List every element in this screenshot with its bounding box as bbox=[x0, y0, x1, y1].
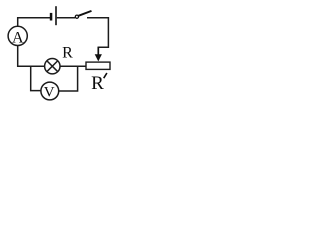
rheostat wiper arrowhead bbox=[95, 54, 102, 61]
svg-text:A: A bbox=[12, 29, 24, 46]
rheostat wiper stem bbox=[97, 47, 99, 55]
wire battery to switch bbox=[57, 17, 75, 19]
rheostat R' box bbox=[86, 62, 110, 69]
wire left vertical below ammeter, corner to lamp bbox=[18, 46, 45, 67]
wire top-left horizontal and left vertical down to ammeter bbox=[18, 18, 51, 27]
wire switch contact to top-right corner, down, and wiper horizontal bbox=[87, 18, 108, 48]
wire voltmeter tap: drop from lamp wire bbox=[31, 66, 41, 90]
lamp R: circle bbox=[45, 58, 60, 73]
wire lamp to rheostat left terminal bbox=[60, 65, 86, 67]
svg-text:R: R bbox=[91, 73, 104, 94]
ammeter U: circle bbox=[8, 26, 27, 45]
lamp cross stroke 2 bbox=[47, 61, 57, 71]
lamp cross stroke 1 bbox=[47, 61, 57, 71]
switch S pivot bbox=[75, 15, 78, 18]
svg-text:R: R bbox=[62, 45, 73, 62]
svg-text:V: V bbox=[44, 84, 55, 100]
voltmeter U: circle bbox=[41, 82, 59, 100]
label R' prime tick bbox=[104, 73, 107, 78]
switch blade bbox=[78, 11, 91, 16]
wire voltmeter right and riser to lamp wire bbox=[59, 66, 78, 91]
battery negative short plate bbox=[50, 13, 53, 21]
battery positive long plate bbox=[55, 6, 57, 25]
